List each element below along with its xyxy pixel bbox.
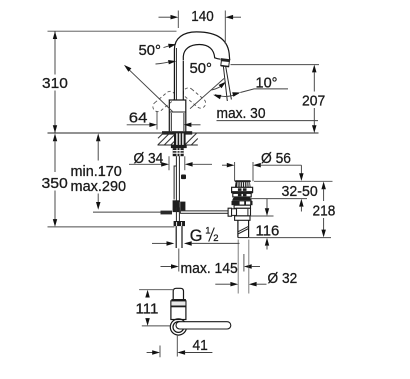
- angle arc 50 right: [212, 84, 225, 91]
- top view escutcheon circle: [170, 319, 186, 335]
- shank below nut: [173, 148, 184, 156]
- svg-text:Ø 56: Ø 56: [261, 150, 291, 167]
- drain tailpipe: [237, 220, 239, 237]
- drain lock nut: [232, 201, 253, 205]
- aerator: [220, 58, 230, 67]
- angle arc 10: [215, 93, 239, 96]
- base flange: [162, 131, 192, 134]
- svg-text:1: 1: [205, 226, 210, 237]
- angle arc 50 left: [156, 62, 171, 64]
- mounting nut: [171, 145, 187, 148]
- svg-text:50°: 50°: [139, 42, 162, 59]
- leader 10: [240, 89, 288, 93]
- crossbar left thin: [93, 211, 161, 213]
- drain dome shoulder: [232, 197, 252, 201]
- ref line tailpipe bottom: [249, 237, 331, 239]
- drain body lower: [235, 216, 250, 220]
- spout axis vertical: [223, 67, 227, 102]
- deck hatch: [158, 133, 198, 145]
- supply tube: [175, 226, 177, 248]
- drain washer band: [231, 192, 253, 194]
- angle leader 50 top: [164, 46, 171, 48]
- ref line sink top: [254, 180, 333, 182]
- svg-text:max.290: max.290: [71, 178, 127, 195]
- drain cap lid: [235, 180, 251, 182]
- svg-text:310: 310: [42, 75, 68, 92]
- dim Ø56: [234, 162, 236, 181]
- drain flange tier2: [233, 193, 251, 197]
- svg-text:Ø 34: Ø 34: [134, 150, 164, 167]
- dim 64: [156, 111, 158, 130]
- spout axis tilted 10: [226, 67, 232, 100]
- svg-text:64: 64: [129, 109, 148, 126]
- spout outer arc: [174, 32, 229, 63]
- lever phantom left dashed: [151, 89, 177, 113]
- svg-text:218: 218: [313, 203, 336, 220]
- svg-text:G: G: [190, 227, 203, 245]
- ref line sink bottom: [250, 198, 307, 200]
- svg-text:max. 145: max. 145: [181, 260, 238, 277]
- dim 140: [177, 11, 179, 29]
- svg-text:Ø 32: Ø 32: [268, 270, 298, 287]
- dim min170 max290: [96, 133, 101, 141]
- pop-up rod: [175, 156, 177, 202]
- spout inner arc: [183, 45, 220, 61]
- shank threads through deck: [174, 133, 186, 145]
- deck top line: [48, 132, 319, 134]
- svg-text:207: 207: [302, 92, 325, 109]
- dim 41: [159, 346, 161, 358]
- rod clamp dot: [181, 175, 186, 180]
- top view lever: [176, 322, 231, 329]
- svg-text:350: 350: [42, 175, 68, 192]
- lever diagonal right: [190, 79, 224, 109]
- svg-text:max. 30: max. 30: [217, 105, 266, 122]
- lever diagonal left: [126, 67, 173, 112]
- riser tube: [175, 62, 183, 100]
- drain flange tier1: [232, 187, 253, 191]
- svg-text:111: 111: [136, 301, 159, 318]
- dim 111: [139, 289, 174, 291]
- svg-text:50°: 50°: [190, 60, 213, 77]
- drain side port plate: [228, 208, 232, 216]
- rod hook: [174, 166, 176, 200]
- body: [169, 100, 186, 133]
- drain knurled cap: [235, 182, 251, 187]
- svg-text:140: 140: [191, 8, 213, 25]
- top view aerator band: [171, 299, 186, 301]
- svg-text:32-50: 32-50: [282, 183, 318, 200]
- dim Ø34: [168, 156, 170, 170]
- dim 116: [250, 215, 273, 217]
- svg-text:2: 2: [213, 233, 218, 244]
- crossbar coupler: [161, 211, 173, 215]
- svg-text:116: 116: [256, 223, 280, 240]
- rod lower: [175, 207, 177, 221]
- dim 218: [321, 182, 326, 190]
- drain body neck: [234, 205, 250, 208]
- crossbar right: [181, 211, 229, 214]
- supply nut: [174, 221, 185, 226]
- dim max 145: [178, 249, 180, 272]
- drain body block: [237, 208, 251, 216]
- svg-text:10°: 10°: [256, 75, 278, 92]
- rod clamp block: [173, 200, 180, 212]
- drain side port: [232, 209, 237, 216]
- dim 310: [48, 30, 177, 32]
- svg-text:41: 41: [193, 337, 208, 354]
- dim 207: [231, 64, 320, 66]
- dim 350: [53, 133, 57, 141]
- top view tube: [171, 301, 186, 320]
- dim Ø32: [237, 240, 239, 294]
- lever phantom right dashed: [181, 86, 207, 110]
- deck bottom line: [158, 144, 198, 146]
- top view spout tip: [173, 288, 183, 299]
